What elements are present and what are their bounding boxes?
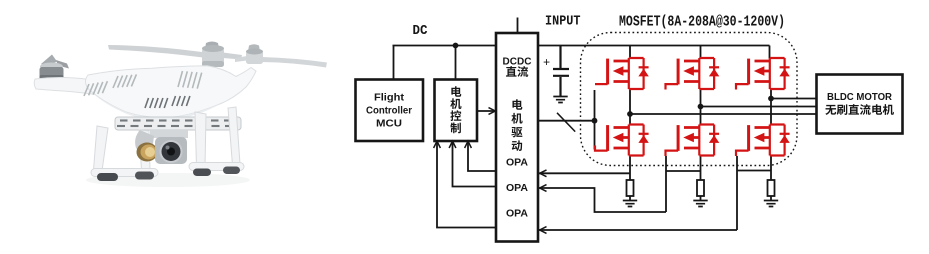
- node phase B: [698, 104, 704, 110]
- svg-text:Controller: Controller: [366, 106, 412, 117]
- node gate bus junction: [592, 118, 598, 124]
- node phase A: [627, 111, 633, 117]
- svg-text:MOSFET(8A-208A@30-1200V): MOSFET(8A-208A@30-1200V): [619, 14, 785, 30]
- wire phase A to motor: [630, 113, 817, 115]
- transistor Q4 low-side phase A: [595, 125, 644, 156]
- ground R2: [693, 201, 707, 207]
- wire feedback loop 2: [453, 142, 497, 187]
- block BLDC MOTOR M1: [817, 75, 903, 134]
- svg-text:INPUT: INPUT: [545, 14, 581, 30]
- ground R1: [623, 201, 637, 207]
- svg-text:OPA: OPA: [506, 157, 528, 169]
- svg-text:OPA: OPA: [506, 208, 528, 220]
- wire PWM arrow motor-control to driver: [477, 110, 494, 112]
- svg-text:MCU: MCU: [376, 119, 402, 130]
- drone photo: [34, 42, 327, 188]
- wire feedback loop 1 (driver to motor-control): [468, 142, 496, 172]
- wire phase B to motor: [701, 106, 817, 108]
- block Flight Controller MCU U1: [356, 80, 424, 142]
- wire half-bridge column 1 verticals: [629, 89, 631, 180]
- resistor R1 shunt: [627, 180, 634, 196]
- svg-text:DCDC: DCDC: [503, 57, 532, 68]
- capacitor C1 input filter: [553, 46, 569, 97]
- block DCDC + motor driver + OPA U3: [496, 33, 538, 242]
- wire gate drive bus with slash: [538, 120, 595, 122]
- transistor Q5 low-side phase B: [666, 125, 715, 157]
- dotted MOSFET bridge boundary: [581, 33, 798, 166]
- node DC junction: [453, 43, 459, 49]
- wire DC branch to motor-control box: [455, 46, 457, 80]
- ground for C1: [553, 97, 567, 103]
- transistor Q3 high-side phase C: [736, 58, 785, 90]
- ground R3: [764, 201, 778, 207]
- wire feedback loop 3: [437, 142, 496, 228]
- wire phase C to motor: [771, 98, 817, 100]
- svg-text:BLDC MOTOR: BLDC MOTOR: [827, 92, 893, 103]
- transistor Q2 high-side phase B: [666, 58, 715, 90]
- svg-text:OPA: OPA: [506, 182, 528, 194]
- resistor R2 shunt: [697, 180, 704, 196]
- wire half-bridge column 2 verticals: [700, 89, 702, 180]
- transistor Q1 high-side phase A: [595, 58, 644, 89]
- wire current sense 1 to OPA: [539, 172, 630, 174]
- wire half-bridge column 3 verticals: [770, 89, 772, 180]
- block motor control 电机控制 U2: [435, 80, 478, 142]
- wire DC bus from MCU to DCDC: [393, 18, 518, 80]
- svg-text:DC: DC: [413, 24, 428, 39]
- wire current sense 3 to OPA: [539, 156, 771, 230]
- svg-text:+: +: [543, 56, 550, 70]
- transistor Q6 low-side phase C: [736, 125, 785, 157]
- svg-text:Flight: Flight: [374, 93, 405, 104]
- wire gate riser column 1: [594, 90, 596, 150]
- wire INPUT power rail to bridge: [538, 46, 770, 59]
- wire current sense 2 to OPA: [539, 156, 701, 212]
- node phase C: [768, 96, 774, 102]
- resistor R3 shunt: [768, 180, 775, 196]
